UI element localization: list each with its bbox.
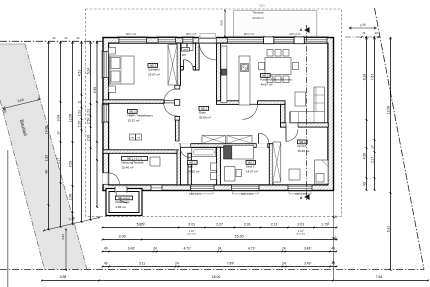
svg-text:A: A <box>300 28 303 32</box>
svg-text:1.01: 1.01 <box>86 109 90 116</box>
svg-text:WC: WC <box>182 54 186 57</box>
svg-text:ohne Rol.: ohne Rol. <box>187 234 197 236</box>
svg-text:24: 24 <box>218 246 222 250</box>
svg-text:BRH+0.00: BRH+0.00 <box>289 33 301 36</box>
svg-text:18.00: 18.00 <box>212 275 221 279</box>
svg-text:1.82: 1.82 <box>44 155 48 162</box>
svg-text:14.00: 14.00 <box>44 126 48 134</box>
svg-text:Pelletlager: Pelletlager <box>116 200 130 204</box>
svg-text:WM: WM <box>130 138 134 140</box>
svg-text:2.90: 2.90 <box>93 87 97 94</box>
svg-text:4.53: 4.53 <box>68 161 72 168</box>
svg-text:05/3: 05/3 <box>259 4 265 8</box>
svg-text:Kind 2: Kind 2 <box>298 144 307 148</box>
svg-text:49: 49 <box>104 246 108 250</box>
svg-text:WE3: WE3 <box>183 49 189 51</box>
svg-text:17: 17 <box>370 145 374 149</box>
svg-text:49: 49 <box>104 261 108 265</box>
svg-text:HWR / Abstellraum: HWR / Abstellraum <box>128 114 154 118</box>
svg-text:Schlafen: Schlafen <box>148 68 160 72</box>
svg-text:12.00: 12.00 <box>386 106 390 114</box>
svg-text:2.00: 2.00 <box>68 194 72 201</box>
svg-text:19.20 m²: 19.20 m² <box>252 16 264 20</box>
svg-text:15.53 m²: 15.53 m² <box>128 118 140 122</box>
svg-text:3.17: 3.17 <box>370 157 374 164</box>
svg-text:24: 24 <box>153 246 157 250</box>
svg-text:4.31: 4.31 <box>61 234 65 240</box>
svg-text:BRH 0.90: BRH 0.90 <box>126 33 137 36</box>
svg-text:6.28: 6.28 <box>362 74 366 81</box>
svg-text:3.00: 3.00 <box>119 234 126 238</box>
svg-text:24: 24 <box>282 246 286 250</box>
svg-text:7.67: 7.67 <box>370 74 374 81</box>
svg-text:23.07 m²: 23.07 m² <box>148 72 160 76</box>
svg-text:3.17: 3.17 <box>56 158 60 165</box>
svg-text:24: 24 <box>282 261 286 265</box>
svg-text:15.00: 15.00 <box>234 234 243 238</box>
svg-text:ohne Rol.: ohne Rol. <box>296 234 306 236</box>
svg-text:3.04: 3.04 <box>56 115 60 122</box>
svg-text:A: A <box>300 196 303 200</box>
svg-text:2.20: 2.20 <box>77 121 81 128</box>
svg-text:17: 17 <box>56 131 60 135</box>
svg-text:3.00: 3.00 <box>220 20 224 26</box>
svg-text:4.51: 4.51 <box>77 70 81 77</box>
svg-text:TR: TR <box>137 138 140 140</box>
svg-text:2.50: 2.50 <box>86 118 90 125</box>
svg-text:2.01: 2.01 <box>244 222 251 226</box>
svg-text:BRH 1.375: BRH 1.375 <box>189 193 201 196</box>
svg-text:14.97 m²: 14.97 m² <box>246 169 258 173</box>
svg-text:6.31: 6.31 <box>386 226 390 233</box>
svg-text:4.50: 4.50 <box>362 153 366 160</box>
svg-text:24: 24 <box>175 261 179 265</box>
svg-text:11: 11 <box>77 100 81 104</box>
svg-text:BRH 1.375: BRH 1.375 <box>241 193 253 196</box>
svg-text:1.01: 1.01 <box>77 110 81 117</box>
svg-text:44.87 m²: 44.87 m² <box>261 82 273 86</box>
svg-text:2.01: 2.01 <box>188 222 195 226</box>
svg-text:Diele: Diele <box>199 111 206 115</box>
svg-text:7.54: 7.54 <box>376 275 383 279</box>
svg-text:2.90: 2.90 <box>86 135 90 142</box>
svg-text:4.84 m²: 4.84 m² <box>116 205 126 209</box>
svg-text:15.46 m²: 15.46 m² <box>298 149 310 153</box>
svg-text:2.11: 2.11 <box>271 222 278 226</box>
svg-text:14.55 m²: 14.55 m² <box>188 169 200 173</box>
svg-text:49: 49 <box>334 236 338 239</box>
svg-text:5.24: 5.24 <box>86 68 90 75</box>
svg-text:BRH 2.05: BRH 2.05 <box>186 33 197 36</box>
svg-text:35.04 m²: 35.04 m² <box>199 115 211 119</box>
svg-text:Kind 1: Kind 1 <box>246 165 255 169</box>
svg-text:2.27: 2.27 <box>216 222 223 226</box>
svg-text:49: 49 <box>44 170 48 174</box>
svg-text:Terrasse: Terrasse <box>252 11 264 15</box>
svg-text:15.46 m²: 15.46 m² <box>122 165 134 169</box>
svg-text:Bad: Bad <box>188 165 194 169</box>
svg-text:Heizung/Technik: Heizung/Technik <box>122 161 145 165</box>
svg-text:12.00: 12.00 <box>68 114 72 122</box>
svg-text:Kochen/Essen/Wohnen: Kochen/Essen/Wohnen <box>261 78 293 82</box>
svg-text:24: 24 <box>334 215 338 218</box>
svg-text:5.11: 5.11 <box>139 261 145 265</box>
svg-text:49: 49 <box>362 182 366 186</box>
svg-text:BRH 0.00: BRH 0.00 <box>244 33 255 36</box>
svg-text:2.01: 2.01 <box>298 222 305 226</box>
svg-text:4.38: 4.38 <box>60 275 67 279</box>
